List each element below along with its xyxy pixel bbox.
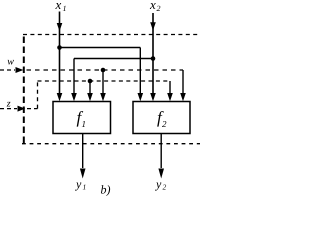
node dot z to f1: [88, 79, 93, 84]
outer dashed box bottom edge: [22, 143, 200, 145]
wire y1 output: [82, 134, 84, 169]
arrowhead x2 at boundary: [150, 22, 156, 30]
wire x1 vertical: [59, 12, 61, 97]
arrowhead x2 branch into f1: [71, 93, 77, 101]
outer dashed box top edge: [23, 34, 200, 36]
node dot x2 branch: [151, 56, 156, 61]
arrowhead w into f2: [180, 93, 186, 101]
arrowhead y1: [80, 169, 86, 179]
svg-text:y: y: [75, 177, 82, 191]
wire x2 branch drop to f1: [73, 59, 75, 97]
arrowhead z into f1: [87, 93, 93, 101]
wire z drop to f1: [89, 81, 91, 96]
svg-text:w: w: [7, 57, 14, 68]
svg-text:1: 1: [63, 4, 67, 13]
wire z dashed line: [38, 80, 171, 82]
wire w dashed line: [27, 69, 184, 71]
wire z dashed stub: [27, 108, 38, 110]
wire z dashed lead-in: [0, 108, 17, 110]
arrowhead z at boundary: [18, 106, 26, 112]
svg-text:1: 1: [83, 183, 87, 192]
arrowhead x2 into f2: [150, 93, 156, 101]
arrowhead w at boundary: [16, 67, 24, 73]
arrowhead z into f2: [167, 93, 173, 101]
wire w drop to f1: [102, 70, 104, 96]
svg-text:1: 1: [82, 119, 87, 129]
wire x1 branch horizontal: [60, 47, 141, 49]
wire y2 output: [160, 134, 162, 169]
wire z dashed riser: [37, 81, 39, 109]
svg-text:z: z: [6, 99, 11, 110]
wire w dashed lead-in: [0, 69, 15, 71]
wire x1 branch drop to f2: [139, 48, 141, 97]
node dot w to f1: [101, 68, 106, 73]
box f1: [53, 102, 111, 134]
wire w drop to f2: [182, 70, 184, 96]
wire x2 vertical: [152, 13, 154, 96]
svg-text:y: y: [155, 177, 162, 191]
wire x2 branch horizontal: [74, 58, 153, 60]
arrowhead w into f1: [100, 93, 106, 101]
box f2: [133, 102, 190, 134]
arrowhead x1 into f1: [57, 93, 63, 101]
svg-text:2: 2: [163, 183, 167, 192]
svg-text:b): b): [101, 183, 111, 197]
svg-text:x: x: [55, 0, 62, 12]
svg-text:x: x: [149, 0, 156, 12]
arrowhead x1 branch into f2: [138, 93, 144, 101]
svg-text:2: 2: [162, 119, 167, 129]
node dot x1 branch: [57, 45, 62, 50]
arrowhead y2: [158, 169, 164, 179]
svg-text:2: 2: [157, 4, 161, 13]
wire z drop to f2: [169, 81, 171, 96]
outer dashed box left edge (bold): [23, 37, 25, 144]
arrowhead x1 at boundary: [57, 23, 63, 31]
